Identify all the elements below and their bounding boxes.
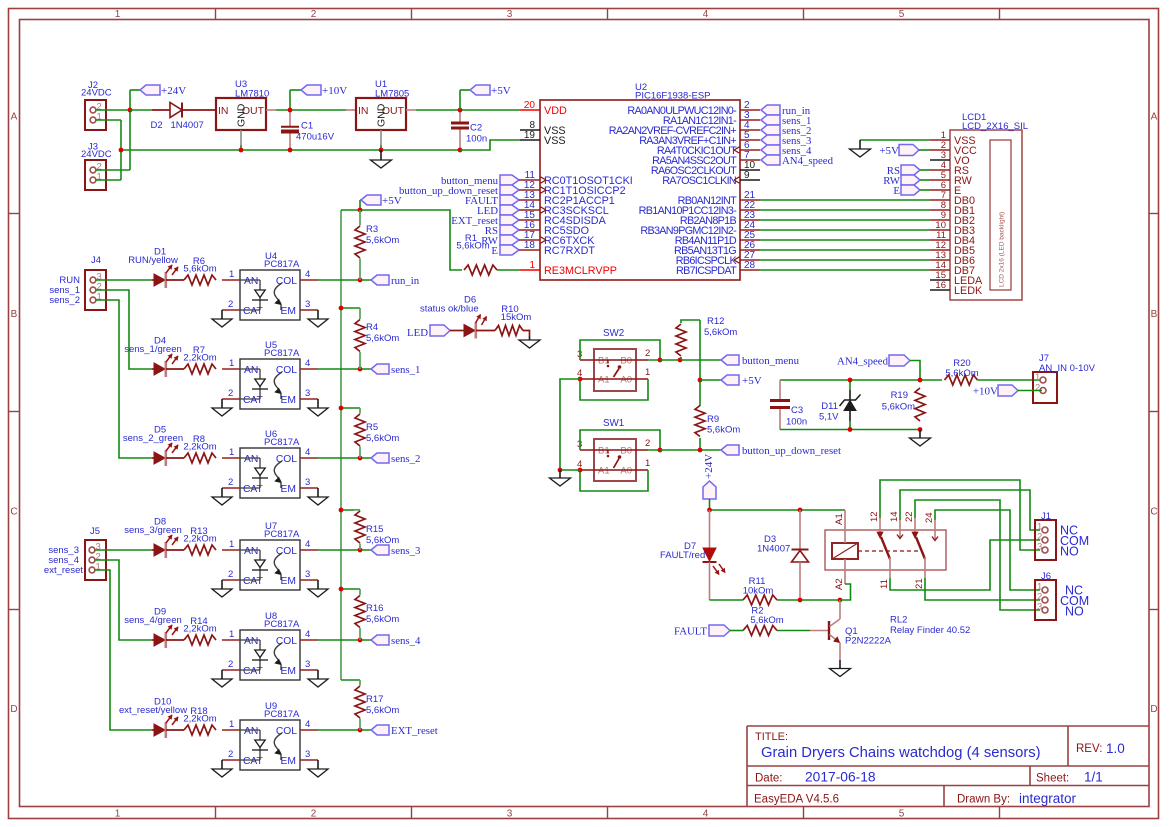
svg-text:24: 24 (924, 512, 935, 523)
net flag E LCD (893, 185, 930, 197)
junction bus R4 (339, 306, 344, 311)
LED D1 RUN/yellow (128, 247, 184, 289)
svg-text:4: 4 (305, 269, 310, 280)
svg-text:1: 1 (229, 719, 234, 730)
RL2 contact pole 2 (912, 518, 938, 578)
svg-text:sens_1: sens_1 (391, 364, 420, 376)
svg-text:10kOm: 10kOm (743, 586, 774, 597)
resistor R8 2,2kOm (183, 434, 216, 463)
power flag +5V bus (360, 195, 402, 210)
wire SW1 B1-B0 loop (580, 430, 660, 450)
svg-text:4: 4 (305, 719, 310, 730)
resistor R18 2,2kOm (183, 706, 216, 735)
U2 pin 20 VDD (520, 100, 567, 117)
svg-text:A1: A1 (598, 466, 610, 477)
wire +24V rail relay (710, 509, 846, 511)
U2 pin 21 RB0AN12INT (678, 190, 760, 207)
svg-text:5,6kOm: 5,6kOm (366, 433, 399, 444)
ground symbol R10 (519, 336, 540, 348)
svg-text:J1: J1 (1041, 511, 1051, 522)
svg-text:ext_reset/yellow: ext_reset/yellow (119, 705, 187, 716)
LED D6 status ok/blue (407, 295, 495, 340)
svg-text:R12: R12 (707, 316, 724, 327)
svg-text:LM7810: LM7810 (235, 89, 269, 100)
svg-text:J4: J4 (91, 255, 101, 266)
wire J2 pin2 to +24V node (96, 109, 131, 111)
svg-text:2: 2 (228, 477, 233, 488)
svg-text:sens_4: sens_4 (391, 635, 421, 647)
svg-text:2,2kOm: 2,2kOm (183, 534, 216, 545)
svg-text:D2: D2 (151, 120, 163, 131)
RL2 contact pole 1 (877, 518, 903, 578)
svg-text:1: 1 (96, 562, 101, 573)
svg-text:+5V: +5V (491, 85, 511, 97)
svg-text:B0: B0 (620, 356, 632, 367)
resistor R11 10kOm (710, 576, 841, 605)
resistor R19 5,6kOm (882, 388, 926, 422)
svg-text:C: C (1150, 507, 1157, 518)
svg-text:16: 16 (935, 280, 946, 291)
RL2 pin 12 wire to J1 NO (869, 480, 1040, 550)
power flag +24V (140, 85, 186, 97)
junction C2 bottom (458, 148, 463, 153)
svg-text:1: 1 (115, 9, 121, 20)
svg-text:GND: GND (376, 103, 388, 127)
wire U1 OUT to U2 VDD (406, 109, 520, 111)
svg-text:1: 1 (97, 112, 102, 123)
U2 pin 16 RC5SDO (520, 220, 589, 237)
svg-text:1: 1 (229, 447, 234, 458)
RL2 pin 22 wire to J6 NO (904, 500, 1040, 610)
wire J5 pin2 to D9 (95, 560, 153, 640)
LCD1 pin 12 DB5 (930, 240, 975, 257)
wire DB6 U2 to LCD (760, 259, 930, 261)
LCD1 pin 15 LEDA (930, 270, 983, 287)
svg-text:5,6kOm: 5,6kOm (366, 235, 399, 246)
net flag button_up_down_reset (399, 185, 520, 197)
optocoupler U9 PC817A (240, 701, 300, 770)
svg-text:1/1: 1/1 (1084, 770, 1103, 785)
wire SW2 B0 to button_menu (660, 359, 721, 361)
U2 pin 22 RB1AN10P1CC12IN3- (639, 200, 760, 217)
svg-text:2: 2 (311, 808, 317, 819)
U5 pin 3 EM to ground (300, 388, 328, 416)
regulator U1 LM7805 (356, 79, 409, 130)
svg-text:3: 3 (305, 388, 310, 399)
svg-text:LCD_2X16_SIL: LCD_2X16_SIL (962, 121, 1028, 132)
svg-text:RUN/yellow: RUN/yellow (128, 255, 178, 266)
RL2 pin A1 (834, 510, 845, 543)
svg-text:4: 4 (305, 539, 310, 550)
pin U1 GND (380, 130, 382, 150)
capacitor C2 100n (451, 110, 487, 150)
svg-text:ext_reset: ext_reset (44, 565, 83, 576)
wire LCD VSS to ground (860, 139, 930, 141)
net flag RW LCD (883, 175, 930, 187)
svg-text:Drawn By:: Drawn By: (957, 794, 1010, 806)
LED D10 ext_reset/yellow (119, 697, 187, 739)
svg-text:B: B (1151, 309, 1158, 320)
RL2 pin 21 wire to J6 COM (914, 578, 1040, 600)
junction SW2 B0 (658, 358, 663, 363)
U2 pin 6 RA4T0CKIC1OUT (657, 140, 760, 157)
U9 pin 4 COL wire to EXT_reset (300, 719, 371, 730)
U7 pin 2 CAT to ground (212, 569, 240, 597)
U2 pin 4 RA2AN2VREF-CVREFC2IN+ (609, 120, 760, 137)
wire J4 pin2 to D4 (96, 290, 153, 369)
junction C2 top (458, 108, 463, 113)
LCD1 pin 7 DB0 (930, 190, 975, 207)
U7 pin 1 AN lead (222, 539, 240, 550)
svg-text:A1: A1 (598, 375, 610, 386)
svg-text:Grain Dryers Chains watchdog (: Grain Dryers Chains watchdog (4 sensors) (761, 745, 1041, 761)
U2 pin 24 RB3AN9PGMC12IN2- (640, 220, 760, 237)
switch SW1 (594, 418, 636, 481)
svg-text:PC817A: PC817A (264, 437, 300, 448)
power flag +10V J7 (973, 385, 1042, 398)
U5 pin 2 CAT to ground (212, 388, 240, 416)
resistor R7 2,2kOm (183, 345, 216, 374)
svg-text:VSS: VSS (544, 135, 566, 147)
svg-text:1N4007: 1N4007 (171, 120, 204, 131)
svg-text:2: 2 (228, 299, 233, 310)
U2 pin 15 RC4SDISDA (520, 210, 607, 227)
LCD1 pin 4 RS (930, 160, 969, 177)
U2 pin 1 RE3MCLRVPP (520, 260, 617, 277)
connector J1 (1035, 511, 1089, 560)
svg-text:PC817A: PC817A (264, 619, 300, 630)
ground symbol switches (550, 470, 571, 486)
svg-text:EXT_reset: EXT_reset (391, 725, 438, 737)
LED D5 sens_2_green (123, 425, 184, 467)
wire J4 pin3 to D1 (96, 279, 153, 281)
capacitor C1 470u16V (281, 110, 335, 150)
net flag AN4_speed source (837, 355, 920, 380)
SW2 pin 3 B1 lead (577, 349, 594, 360)
svg-text:3: 3 (507, 9, 513, 20)
svg-text:4: 4 (305, 447, 310, 458)
svg-text:AN: AN (244, 726, 258, 737)
svg-text:run_in: run_in (391, 275, 420, 287)
svg-text:sens_4/green: sens_4/green (124, 615, 182, 626)
svg-text:E: E (893, 185, 900, 197)
svg-text:+10V: +10V (973, 386, 998, 398)
junction D7 top (707, 508, 712, 513)
svg-text:R19: R19 (891, 390, 908, 401)
net flag RS (485, 225, 520, 237)
wire analog ground rail (780, 429, 920, 431)
optocoupler U8 PC817A (240, 611, 300, 680)
LCD1 LCD_2X16_SIL (950, 112, 1028, 300)
svg-text:J6: J6 (1041, 571, 1051, 582)
LCD1 pin 13 DB6 (930, 250, 975, 267)
svg-text:+5V: +5V (742, 375, 762, 387)
svg-text:+24V: +24V (161, 85, 186, 97)
svg-text:R16: R16 (366, 603, 383, 614)
junction Q1 collector node (838, 598, 843, 603)
resistor R13 2,2kOm (183, 526, 216, 555)
U2 pin 7 RA5AN4SSC2OUT (652, 150, 760, 167)
svg-text:2: 2 (1035, 383, 1040, 394)
junction sens_3 node (358, 548, 363, 553)
net flag FAULT (465, 195, 520, 207)
resistor R12 5,6kOm (675, 316, 737, 360)
junction +5V flag (358, 208, 363, 213)
svg-text:1: 1 (97, 172, 102, 183)
SW1 pin 2 B0 lead (636, 438, 650, 450)
svg-text:2: 2 (645, 348, 650, 359)
net flag run_in (371, 275, 420, 287)
LED D7 FAULT/red (660, 510, 725, 600)
SW2 pin 2 B0 lead (636, 348, 650, 360)
svg-text:sens_3/green: sens_3/green (124, 525, 182, 536)
SW1 pin 3 B1 lead (577, 439, 594, 450)
resistor R16 5,6kOm pull-up (341, 589, 399, 640)
U6 pin 3 EM to ground (300, 477, 328, 505)
U9 pin 1 AN lead (222, 719, 240, 730)
svg-text:TITLE:: TITLE: (755, 731, 788, 743)
svg-text:FAULT: FAULT (674, 626, 707, 638)
junction SW2 A1 (578, 377, 583, 382)
zener diode D11 5,1V (819, 380, 861, 430)
svg-text:11: 11 (879, 579, 890, 589)
junction D11 bottom (848, 427, 853, 432)
svg-text:C1: C1 (301, 121, 313, 132)
svg-text:5: 5 (899, 9, 905, 20)
net flag sens_2 (371, 453, 420, 465)
svg-text:A2: A2 (834, 578, 845, 590)
svg-text:2,2kOm: 2,2kOm (183, 353, 216, 364)
resistor R14 2,2kOm (183, 616, 216, 645)
svg-text:+10V: +10V (322, 85, 347, 97)
U6 pin 1 AN lead (222, 447, 240, 458)
LED D9 sens_4/green (124, 607, 184, 649)
svg-text:1: 1 (645, 458, 650, 469)
svg-text:2: 2 (228, 388, 233, 399)
svg-text:PIC16F1938-ESP: PIC16F1938-ESP (635, 91, 711, 102)
resistor R9 5,6kOm (694, 406, 740, 439)
svg-text:2: 2 (311, 9, 317, 20)
svg-text:C3: C3 (791, 405, 803, 416)
title block (747, 726, 1149, 807)
junction +5V node switches (698, 378, 703, 383)
connector J3 (81, 142, 112, 191)
svg-text:RB7ICSPDAT: RB7ICSPDAT (676, 265, 737, 277)
svg-text:LM7805: LM7805 (375, 89, 409, 100)
svg-text:AN4_speed: AN4_speed (837, 356, 889, 368)
wire SW2 B1-B0 loop (580, 340, 660, 360)
U6 pin 2 CAT to ground (212, 477, 240, 505)
LCD1 pin 9 DB2 (930, 210, 975, 227)
LCD1 pin 16 LEDK (930, 280, 983, 297)
wire DB0 U2 to LCD (760, 199, 930, 201)
net flag sens_4 (371, 635, 421, 647)
LED D4 sens_1/green (124, 336, 184, 378)
wire DB3 U2 to LCD (760, 229, 930, 231)
resistor R10 15kOm (495, 304, 531, 336)
switch SW2 (594, 328, 636, 391)
svg-text:D: D (1150, 704, 1157, 715)
optocoupler U5 PC817A (240, 340, 300, 409)
junction R12 bottom (678, 358, 683, 363)
+5V bus top wire (341, 209, 360, 211)
ground symbol analog (910, 430, 931, 447)
net flag FAULT (674, 625, 730, 638)
optocoupler U4 PC817A (240, 251, 300, 320)
junction bus R15 (339, 508, 344, 513)
U2 pin 25 RB4AN11P1D (675, 230, 760, 247)
svg-text:A1: A1 (834, 513, 845, 525)
junction SW1 A1 (578, 468, 583, 473)
svg-text:R3: R3 (366, 224, 378, 235)
svg-text:R15: R15 (366, 524, 383, 535)
svg-text:1: 1 (229, 539, 234, 550)
RL2 pin A2 (834, 559, 851, 600)
ground rail wire (121, 149, 460, 151)
svg-text:14: 14 (889, 511, 900, 522)
U7 pin 4 COL wire to sens_3 (300, 539, 371, 550)
svg-text:LCD 2x16 (LED backlight): LCD 2x16 (LED backlight) (999, 212, 1006, 287)
svg-text:EM: EM (281, 395, 296, 406)
net flag LED (477, 205, 520, 217)
U2 pin 11 RC0T1OSOT1CKI (520, 170, 633, 187)
LCD1 pin 10 DB3 (930, 220, 975, 237)
svg-text:EM: EM (281, 576, 296, 587)
net flag AN4_speed (761, 155, 834, 167)
svg-text:3: 3 (1037, 602, 1042, 613)
svg-text:sens_2: sens_2 (49, 295, 80, 306)
RL2 pin 24 wire to J6 NC (924, 510, 1040, 590)
connector J4 (49, 255, 106, 310)
ground symbol LCD VSS (850, 140, 871, 157)
svg-text:P2N2222A: P2N2222A (845, 636, 892, 647)
wire SW2 A1 to SW1 A1 / ground (560, 379, 580, 470)
junction sens_2 node (358, 456, 363, 461)
connector J7 AN_IN 0-10V (1033, 353, 1096, 403)
svg-text:3: 3 (305, 749, 310, 760)
U5 pin 4 COL wire to sens_1 (300, 358, 371, 369)
svg-text:2,2kOm: 2,2kOm (183, 442, 216, 453)
svg-text:A: A (11, 112, 18, 123)
junction sens_1 node (358, 367, 363, 372)
net flag E (491, 245, 520, 257)
connector J2 (81, 80, 112, 130)
svg-text:5,6kOm: 5,6kOm (366, 705, 399, 716)
+5V bus vertical wire (340, 210, 342, 680)
junction R19 bottom (918, 427, 923, 432)
relay RL2 Relay Finder 40.52 (825, 530, 970, 636)
svg-text:AN: AN (244, 546, 258, 557)
junction SW1 B0 (658, 448, 663, 453)
svg-text:4: 4 (305, 629, 310, 640)
pin U3 GND to ground rail (240, 130, 242, 150)
svg-text:R9: R9 (707, 414, 719, 425)
svg-text:REV:: REV: (1076, 743, 1102, 755)
junction +24V (128, 108, 133, 113)
U2 pin 10 RA6OSC2CLKOUT (651, 160, 760, 177)
svg-text:AN: AN (244, 636, 258, 647)
LED D8 sens_3/green (124, 517, 184, 559)
svg-text:1: 1 (97, 292, 102, 303)
LCD1 pin 11 DB4 (930, 230, 975, 247)
net flag sens_2 (761, 125, 811, 137)
svg-text:3: 3 (507, 808, 513, 819)
svg-text:sens_1/green: sens_1/green (124, 344, 182, 355)
net flag sens_1 (371, 364, 420, 376)
U2 pin 3 RA1AN1C12IN1- (663, 110, 760, 127)
capacitor C3 100n (770, 380, 807, 430)
junction U1 GND (379, 148, 384, 153)
svg-text:IN: IN (218, 105, 229, 117)
resistor R6 5,6kOm (183, 256, 216, 285)
svg-text:AN: AN (244, 276, 258, 287)
svg-text:R17: R17 (366, 694, 383, 705)
svg-text:2: 2 (228, 659, 233, 670)
svg-text:RC7RXDT: RC7RXDT (544, 245, 595, 257)
svg-text:5,1V: 5,1V (819, 412, 839, 423)
svg-text:+5V: +5V (879, 145, 899, 157)
svg-text:C: C (10, 507, 17, 518)
svg-text:18: 18 (524, 240, 536, 251)
svg-text:24VDC: 24VDC (81, 88, 112, 99)
net flag button_up_down_reset (721, 445, 841, 457)
svg-text:B0: B0 (620, 446, 632, 457)
svg-text:D11: D11 (821, 401, 838, 412)
svg-text:PC817A: PC817A (264, 709, 300, 720)
svg-text:SW2: SW2 (603, 328, 624, 339)
wire DB2 U2 to LCD (760, 219, 930, 221)
resistor R17 5,6kOm pull-up (341, 680, 399, 730)
wire DB4 U2 to LCD (760, 239, 930, 241)
svg-text:12: 12 (869, 511, 880, 522)
U2 pin 27 RB6ICSPCLK (676, 250, 760, 267)
junction U3 GND (239, 148, 244, 153)
svg-text:1.0: 1.0 (1106, 741, 1125, 756)
svg-text:5,6kOm: 5,6kOm (707, 425, 740, 436)
svg-text:+5V: +5V (382, 195, 402, 207)
svg-text:EasyEDA V4.5.6: EasyEDA V4.5.6 (754, 794, 839, 806)
junction switch ground node (558, 468, 563, 473)
wire AN4_speed rail (780, 379, 942, 381)
svg-text:R5: R5 (366, 422, 378, 433)
svg-text:PC817A: PC817A (264, 259, 300, 270)
svg-text:Relay Finder 40.52: Relay Finder 40.52 (890, 625, 970, 636)
U4 pin 3 EM to ground (300, 299, 328, 327)
wire DB1 U2 to LCD (760, 209, 930, 211)
svg-text:22: 22 (904, 511, 915, 522)
SW1 pin 1 A0 lead (636, 458, 650, 470)
svg-text:A0: A0 (620, 375, 632, 386)
power flag +24V relay (703, 454, 716, 510)
resistor R1 5,6kOm (360, 210, 520, 275)
resistor R2 5,6kOm (730, 606, 829, 636)
U8 pin 2 CAT to ground (212, 659, 240, 687)
svg-text:RA7OSC1CLKIN: RA7OSC1CLKIN (662, 175, 736, 187)
power flag +5V top (460, 85, 511, 110)
wire J2 pin1 / J3 pin1 to ground rail (96, 120, 122, 180)
junction D11 top (848, 378, 853, 383)
svg-text:RL2: RL2 (890, 615, 907, 626)
junction C1 bottom (288, 148, 293, 153)
wire J5 pin3 to D8 (95, 549, 153, 551)
svg-text:EM: EM (281, 484, 296, 495)
svg-text:R4: R4 (366, 322, 378, 333)
optocoupler U6 PC817A (240, 429, 300, 498)
svg-text:button_menu: button_menu (742, 355, 800, 367)
junction C1 top (288, 108, 293, 113)
svg-text:LEDK: LEDK (954, 285, 983, 297)
svg-text:A: A (1151, 112, 1158, 123)
